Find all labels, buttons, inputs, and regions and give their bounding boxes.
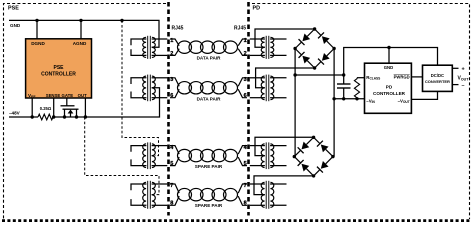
DC/DC converter U3 bbox=[423, 65, 453, 91]
wire -VOUT to DC/DC minus bbox=[411, 91, 437, 99]
junction source bbox=[63, 115, 66, 118]
twisted pair pins 3-6 cable bbox=[170, 78, 247, 98]
junction cap bottom bbox=[342, 97, 345, 100]
svg-text:SPARE PAIR: SPARE PAIR bbox=[195, 164, 223, 169]
wire T3 center tap stub bbox=[152, 155, 156, 157]
svg-text:RCLASS: RCLASS bbox=[366, 75, 380, 81]
transformer T5 bbox=[261, 36, 274, 59]
wire transformer T7 PHY-side stubs bbox=[270, 146, 286, 166]
transistor Q1 MOSFET bbox=[61, 98, 79, 117]
wire T3 secondary leads to RJ45 bbox=[152, 146, 168, 166]
svg-text:GATE: GATE bbox=[61, 93, 73, 98]
RJ45 connector left (bold dashed line) bbox=[167, 2, 170, 216]
wire T6 center tap to bridge BR1 bottom bbox=[256, 68, 315, 88]
svg-text:DATA PAIR: DATA PAIR bbox=[197, 56, 221, 61]
transformer T2 bbox=[143, 75, 156, 102]
svg-text:GND: GND bbox=[10, 23, 21, 28]
svg-text:AGND: AGND bbox=[73, 41, 87, 46]
junction GND-AGND bbox=[79, 19, 82, 22]
diode bridge BR2 bbox=[293, 136, 335, 178]
wire transformer T6 line-side leads from RJ45 bbox=[250, 78, 265, 98]
diode bridge BR1 bbox=[293, 27, 335, 69]
svg-text:PSE: PSE bbox=[53, 65, 64, 71]
svg-text:PD: PD bbox=[386, 85, 393, 90]
wire bridge plus bus (left corners) bbox=[294, 49, 296, 157]
RJ45 connector right (bold dashed line) bbox=[247, 2, 250, 216]
junction RCLASS bottom bbox=[355, 97, 358, 100]
svg-text:PWRGD: PWRGD bbox=[394, 74, 410, 79]
transformer T3 bbox=[143, 142, 156, 169]
wire PWRGD to DC/DC bbox=[411, 76, 422, 78]
svg-text:DC/DC: DC/DC bbox=[431, 73, 444, 78]
junction cap top bbox=[342, 73, 345, 76]
wire spare tap B (-48V to spare transformer T4, dashed) bbox=[85, 117, 159, 195]
svg-text:RJ45: RJ45 bbox=[172, 26, 184, 32]
wire T4 center tap stub bbox=[152, 194, 156, 196]
PSE controller U1 bbox=[26, 39, 92, 99]
wire T8 center tap to bridge BR2 bottom bbox=[254, 176, 314, 195]
wire T1 primary leads (PHY side) bbox=[131, 39, 146, 55]
svg-text:CONVERTER: CONVERTER bbox=[425, 79, 450, 84]
twisted pair pins 4-5 cable bbox=[170, 146, 247, 166]
svg-text:DATA PAIR: DATA PAIR bbox=[197, 96, 221, 101]
svg-text:CONTROLLER: CONTROLLER bbox=[41, 72, 76, 78]
pin numbers right RJ45 bbox=[244, 38, 248, 207]
capacitor C1 bbox=[337, 84, 351, 99]
wire spare tap A (GND to spare transformer T3, dashed) bbox=[122, 20, 159, 155]
outer bottom border (bold dashed) bbox=[2, 219, 471, 222]
wire GND pin bbox=[388, 48, 390, 64]
transformer T4 bbox=[143, 181, 156, 209]
wire transformer T5 PHY-side stubs bbox=[270, 39, 286, 55]
wire T2 center tap stub bbox=[152, 87, 156, 89]
junction GND-spare tap bbox=[120, 19, 123, 22]
wire T1 secondary leads to RJ45 bbox=[152, 39, 168, 55]
junction plus tap bbox=[293, 73, 296, 76]
twisted pair pins 7-8 cable bbox=[170, 184, 247, 205]
wire OUT pin bbox=[84, 98, 86, 117]
svg-text:–: – bbox=[462, 83, 465, 89]
net PD GND rail bbox=[344, 48, 438, 85]
wire VEE pin bbox=[31, 98, 33, 117]
wire T3 primary leads (PHY side) bbox=[131, 146, 146, 166]
junction VEE bbox=[31, 115, 34, 118]
pin numbers left RJ45 bbox=[170, 38, 174, 207]
transformer T8 bbox=[261, 181, 274, 209]
junction GND pin drop bbox=[387, 46, 390, 49]
svg-text:PD: PD bbox=[253, 6, 261, 12]
svg-text:OUT: OUT bbox=[78, 93, 87, 98]
wire AGND pin bbox=[80, 20, 82, 38]
resistor R1 0.25ohm sense bbox=[38, 114, 53, 120]
wire transformer T8 line-side leads from RJ45 bbox=[250, 184, 265, 205]
wire transformer T5 line-side leads from RJ45 bbox=[250, 39, 265, 55]
transformer T6 bbox=[261, 75, 274, 102]
svg-text:DGND: DGND bbox=[31, 41, 45, 46]
junction minus tap bbox=[332, 97, 335, 100]
net -48V rail right part bbox=[53, 88, 160, 117]
resistor R2 RCLASS bbox=[354, 78, 364, 99]
wire T7 center tap to bridge BR2 top bbox=[255, 137, 314, 155]
wire bridge minus bus (right corners) bbox=[333, 49, 335, 157]
wire T2 secondary leads to RJ45 bbox=[152, 78, 168, 98]
svg-text:–VOUT: –VOUT bbox=[398, 98, 410, 104]
svg-text:GND: GND bbox=[384, 65, 394, 70]
wire transformer T6 PHY-side stubs bbox=[270, 78, 286, 98]
junction GND-DGND bbox=[35, 19, 38, 22]
wire T4 secondary leads to RJ45 bbox=[152, 184, 168, 205]
svg-text:SENSE: SENSE bbox=[46, 93, 61, 98]
wire SENSE pin bbox=[53, 98, 55, 117]
transformer T1 bbox=[143, 36, 156, 59]
net -48V rail left part bbox=[9, 116, 38, 118]
svg-text:–48V: –48V bbox=[9, 111, 21, 116]
wire transformer T8 PHY-side stubs bbox=[270, 184, 286, 205]
svg-text:+: + bbox=[462, 66, 465, 72]
wire T4 primary leads (PHY side) bbox=[131, 184, 146, 205]
wire T2 primary leads (PHY side) bbox=[131, 78, 146, 98]
svg-text:0.25Ω: 0.25Ω bbox=[40, 106, 52, 111]
svg-text:RJ45: RJ45 bbox=[234, 26, 246, 32]
PD controller U2 bbox=[365, 63, 412, 113]
junction drain bbox=[75, 115, 78, 118]
net -VIN rail bbox=[334, 98, 364, 100]
PSE section dashed border bbox=[4, 4, 167, 220]
svg-text:–VIN: –VIN bbox=[366, 98, 375, 104]
svg-text:CONTROLLER: CONTROLLER bbox=[373, 91, 406, 96]
wire T1 center tap stub bbox=[152, 46, 156, 48]
wire DGND pin bbox=[36, 20, 38, 38]
transformer T7 bbox=[261, 142, 274, 169]
junction OUT bbox=[84, 115, 87, 118]
wire T5 center tap to bridge BR1 top bbox=[255, 29, 315, 47]
node VOUT output terminal bbox=[452, 66, 469, 89]
wire plus feed to GND rail bbox=[295, 74, 344, 76]
wire transformer T7 line-side leads from RJ45 bbox=[250, 146, 265, 166]
junction SENSE bbox=[52, 115, 55, 118]
svg-text:PSE: PSE bbox=[8, 6, 19, 12]
net GND rail bbox=[9, 20, 159, 47]
svg-text:SPARE PAIR: SPARE PAIR bbox=[195, 203, 223, 208]
twisted pair pins 1-2 cable bbox=[170, 39, 247, 55]
PD section dashed border bbox=[252, 4, 470, 220]
